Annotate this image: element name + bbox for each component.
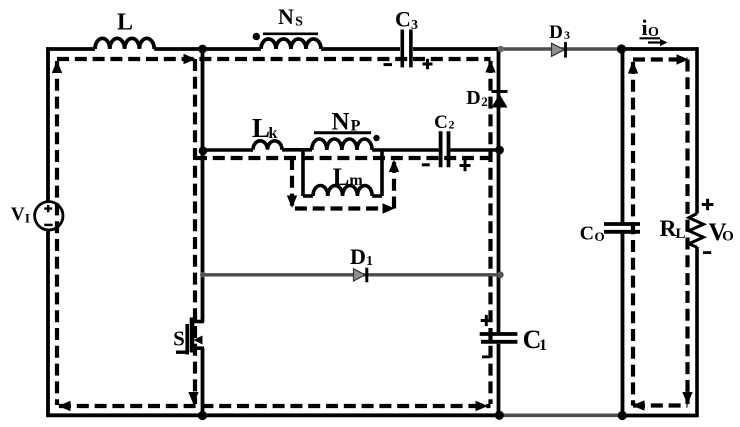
svg-text:2: 2 — [481, 94, 488, 109]
svg-text:S: S — [173, 327, 185, 351]
D1 cathode bar — [365, 268, 368, 283]
wire from Lk to NP — [282, 148, 312, 152]
wire (dashed bottom horizontal y=406) — [59, 404, 491, 408]
svg-text:P: P — [351, 118, 361, 135]
arrow left on output loop bottom — [632, 400, 645, 410]
node at C3/D2 top junction (gray dot) — [498, 46, 504, 52]
svg-text:O: O — [722, 229, 734, 245]
wire from MOSFET source to bottom rail — [201, 348, 205, 417]
MOSFET S drain jog — [192, 320, 204, 324]
iO underline — [640, 37, 661, 39]
wire (dashed vertical beside switch x=195) — [193, 59, 197, 404]
capacitor C3 — [402, 30, 411, 68]
D3 cathode bar — [564, 42, 567, 58]
node at C1/bottom rail — [495, 411, 504, 420]
svg-text:m: m — [349, 172, 363, 189]
svg-text:N: N — [278, 4, 294, 29]
svg-text:L: L — [117, 10, 133, 36]
wire CO branch vertical lower — [621, 234, 625, 416]
VI plus sign — [44, 205, 52, 212]
inductor L — [95, 38, 154, 49]
svg-text:2: 2 — [449, 118, 455, 132]
diode D2 — [492, 94, 508, 108]
MOSFET S gate lead — [176, 351, 187, 354]
resistor RL — [689, 214, 704, 248]
node D1 anode (gray dot) — [200, 272, 206, 278]
node at switch source/bottom rail — [198, 411, 207, 420]
wire (gray) from node to D3 — [500, 47, 620, 51]
wire left vertical above VI — [46, 47, 50, 202]
svg-text:L: L — [252, 113, 270, 143]
svg-text:C: C — [580, 222, 594, 244]
wire left vertical below VI — [46, 230, 50, 417]
RL minus sign — [703, 251, 711, 254]
wire (gray) diode D1 branch — [203, 273, 499, 276]
wire C1 branch vertical lower — [497, 344, 501, 416]
wire right vertical above RL — [695, 47, 699, 213]
svg-text:3: 3 — [411, 18, 418, 33]
C3 minus sign — [384, 63, 393, 66]
C3 plus sign — [423, 59, 433, 70]
svg-text:L: L — [333, 164, 350, 191]
inductor Lm — [313, 186, 372, 196]
C2 minus sign — [422, 163, 430, 166]
node D1 cathode (gray dot) — [497, 271, 504, 278]
svg-text:k: k — [269, 125, 278, 142]
NS polarity dot — [253, 33, 260, 40]
wire from NS to C3 — [321, 47, 400, 51]
wire switch-branch vertical from top node to MOSFET drain — [201, 47, 205, 322]
voltage source VI circle — [35, 202, 63, 230]
wire Lm bottom right stub — [372, 194, 382, 198]
C2 plus sign — [460, 160, 471, 171]
wire (dashed output loop left vertical x=633) — [631, 62, 635, 406]
wire (dashed output loop top y=59.5) — [633, 57, 688, 61]
inductor Lm parallel branch right vertical — [380, 150, 384, 196]
wire from C3 to node at x=498.5 — [413, 47, 500, 51]
svg-text:L: L — [675, 226, 685, 242]
arrow right on top dashed before switch node — [184, 54, 196, 64]
node at D3/CO junction — [617, 44, 626, 53]
arrow up on output loop left — [628, 61, 638, 74]
wire from L to node at x=202.5 — [154, 47, 261, 51]
arrow up on Lm loop right — [389, 160, 399, 173]
svg-text:V: V — [11, 204, 25, 225]
MOSFET S channel bar — [190, 318, 195, 353]
diode D3 — [552, 43, 565, 56]
svg-text:O: O — [594, 229, 604, 244]
wire (dashed output loop bottom y=405.5) — [633, 403, 688, 407]
NP polarity dot — [373, 135, 379, 141]
arrow down on dashed beside switch — [188, 392, 198, 405]
svg-text:S: S — [295, 15, 303, 30]
wire CO branch vertical upper — [621, 47, 625, 222]
capacitor C2 — [441, 131, 449, 167]
wire (dashed output loop right vertical x=687.5) — [685, 60, 689, 405]
svg-text:1: 1 — [539, 337, 547, 354]
node at switch/Lk junction — [199, 146, 208, 155]
NS core bar — [263, 32, 318, 35]
svg-text:3: 3 — [564, 28, 570, 42]
wire from C2 to D2 branch node — [450, 148, 498, 152]
wire D2/C1 branch vertical upper — [497, 47, 501, 332]
arrow up on dashed beside D2 — [485, 60, 495, 73]
wire Lm bottom left stub — [303, 194, 313, 198]
wire bottom rail left (black) — [46, 413, 500, 417]
C1 plus sign — [481, 315, 492, 326]
VI minus sign — [44, 224, 52, 226]
node at C2/D2 junction — [495, 146, 504, 155]
winding NS — [261, 39, 321, 49]
arrow up on left dashed loop — [52, 61, 62, 74]
wire (dashed Lm loop) — [292, 158, 390, 209]
wire from NP to C2 — [372, 148, 439, 152]
inductor Lk — [253, 141, 282, 150]
wire (dashed Lm loop right vertical) — [392, 162, 396, 209]
wire (dashed middle row y=158) — [195, 156, 491, 160]
C1 minus sign — [482, 355, 490, 358]
arrow right on output loop top — [677, 54, 689, 64]
wire (dashed vertical beside D2/C1 x=490) — [488, 61, 492, 404]
capacitor C1 — [480, 334, 518, 342]
wire (dashed input-loop left vertical) — [55, 61, 59, 405]
node at L/NS/switch junction — [198, 45, 207, 54]
iO arrow — [648, 41, 662, 43]
D2 cathode bar — [492, 90, 508, 93]
inductor Lm parallel branch left vertical — [301, 150, 305, 196]
wire bottom rail right (black) — [622, 414, 699, 418]
wire row from switch node to Lk — [203, 148, 254, 152]
capacitor CO — [604, 224, 640, 232]
svg-text:i: i — [641, 15, 647, 40]
svg-text:1: 1 — [366, 254, 373, 269]
RL plus sign — [702, 199, 714, 211]
arrow down on Lm loop left — [287, 196, 297, 209]
diode D1 — [354, 269, 366, 281]
MOSFET S gate bar — [185, 324, 189, 355]
wire right vertical below RL — [695, 247, 699, 417]
arrow left on bottom dashed at VI — [58, 401, 71, 411]
svg-text:D: D — [466, 87, 480, 109]
MOSFET S source jog — [192, 346, 204, 350]
wire top-left from VI to inductor L — [46, 47, 95, 51]
wire from D3 node to top-right corner — [620, 47, 699, 51]
svg-text:C: C — [395, 7, 411, 32]
svg-text:D: D — [549, 22, 563, 43]
arrow right on Lm loop bottom — [383, 203, 395, 213]
node at CO/bottom rail — [618, 411, 627, 420]
arrow right on bottom dashed at C1 — [476, 401, 489, 411]
svg-text:D: D — [350, 244, 366, 269]
svg-text:I: I — [25, 210, 30, 225]
wire (dashed top horizontal y=59) — [57, 57, 491, 61]
winding NP — [312, 139, 372, 150]
svg-text:C: C — [434, 112, 448, 133]
svg-text:N: N — [331, 108, 349, 135]
MOSFET S body arrow — [194, 336, 203, 345]
NP core bar — [314, 131, 371, 134]
wire bottom rail middle (gray) — [500, 413, 622, 417]
arrow down on output loop right — [682, 392, 692, 405]
